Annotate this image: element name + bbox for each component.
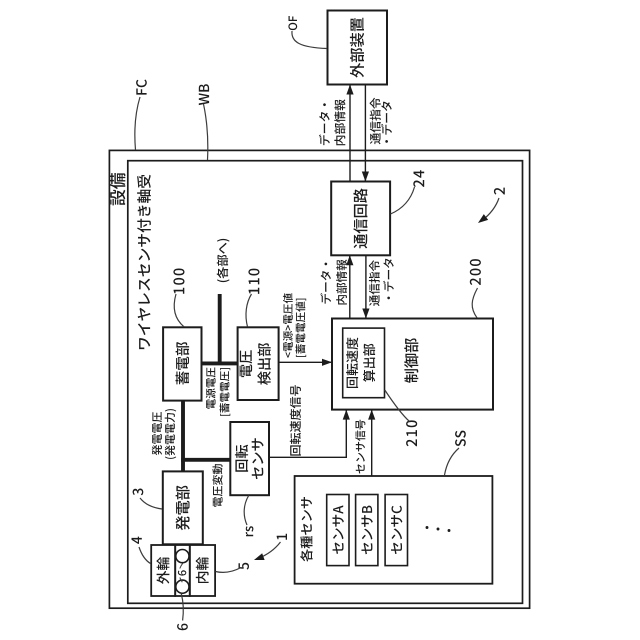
leader OF [292, 31, 327, 49]
leader 210 [385, 390, 410, 422]
ref 6 between balls [178, 570, 186, 575]
ball cage box (bearing balls) [175, 545, 190, 596]
control unit box 200 (制御部) [332, 319, 493, 410]
note データ・ upper line1 [319, 103, 330, 145]
note 電源電圧 line1 [206, 368, 216, 409]
leader arrow 2 [482, 198, 499, 221]
leader 100 [174, 294, 184, 327]
label センサC [391, 506, 402, 554]
note 通信指令 upper line1 [370, 98, 381, 145]
ref 4 (outer ring) [131, 537, 141, 544]
label 外輪 [157, 557, 170, 584]
sensor A box (センサA) [327, 495, 349, 566]
wireless-sensor bearing box WB rectangle [128, 161, 523, 604]
ref 2 (bearing device) [494, 188, 505, 195]
ref 100 [173, 269, 184, 294]
ref 6 bottom [177, 624, 188, 631]
arrow command down to communication circuit [364, 85, 366, 182]
ref WB [199, 84, 209, 105]
leader arrow 1 [258, 542, 281, 559]
label 検出部 line2 [258, 343, 271, 385]
power bus wire horizontal storage-to-detector [202, 361, 238, 365]
leader 6 to lower ball [180, 578, 183, 583]
note （発電電力） line2 [165, 409, 177, 459]
note 内部情報 upper line2 [334, 99, 345, 145]
note センサ信号 [355, 420, 365, 474]
note 回転速度信号 [290, 385, 301, 456]
leader SS [445, 448, 460, 475]
ellipsis dots for more sensors [426, 526, 429, 529]
title 設備 (equipment) [110, 173, 126, 205]
arrow rotation speed signal wire [269, 410, 346, 458]
leader FC [135, 97, 140, 150]
rotation sensor box rs (回転センサ) [230, 422, 269, 495]
label センサA [333, 505, 344, 554]
ref 210 [406, 420, 417, 446]
label 回転 line1 [235, 445, 248, 472]
leader WB [204, 104, 208, 160]
ref 1 (sensor unit) [277, 534, 287, 540]
arrow data up to external device [349, 85, 351, 182]
label 外部装置 [350, 18, 364, 78]
arrow sensor signal wire [371, 410, 373, 476]
leader 3 [140, 498, 162, 509]
label 蓄電部 [176, 342, 190, 385]
note 〔蓄電電圧値〕 line2 [295, 299, 306, 357]
note 発電電圧 line1 [152, 412, 162, 455]
ref rs (rotation sensor) [246, 526, 254, 536]
sensor C box (センサC) [385, 495, 407, 566]
label 通信回路 [353, 188, 367, 248]
note 内部情報 lower line2 [336, 260, 347, 305]
note 電圧変動 [212, 464, 222, 507]
leader 24 [391, 187, 415, 214]
leader 5 [216, 568, 242, 573]
power bus wire branch to rotation sensor [181, 458, 230, 462]
communication circuit box 24 (通信回路) [331, 182, 390, 256]
rotation speed calc box 210 (回転速度算出部) [343, 328, 385, 398]
note 通信指令 lower line1 [369, 260, 380, 306]
ref OF [288, 16, 297, 30]
label 発電部 [176, 486, 190, 531]
various sensors box SS (各種センサ) [295, 476, 493, 584]
title ワイヤレスセンサ付き軸受 [137, 175, 151, 350]
note ・データ upper line2 [381, 101, 392, 142]
leader 4 [139, 547, 151, 564]
note (各部へ) [217, 239, 230, 282]
leader 110 [246, 294, 252, 327]
note データ・ lower line1 [320, 263, 331, 304]
arrow data up to communication circuit [349, 255, 351, 318]
ref 3 (generator) [133, 489, 144, 496]
leader 6 to upper ball [180, 563, 183, 568]
ref 24 [413, 170, 424, 187]
label 回転速度 line1 [346, 337, 358, 388]
bearing ball lower circle [176, 580, 189, 593]
ref SS [455, 431, 466, 447]
generator box 3 (発電部) [163, 471, 203, 544]
note ・データ lower line2 [383, 259, 394, 300]
note 〈電源〉電圧値 line1 [283, 293, 293, 357]
ref FC [136, 80, 147, 95]
ref 5 (inner ring) [238, 563, 249, 570]
label 内輪 [196, 557, 209, 583]
label 電圧 line1 [240, 350, 253, 377]
label 各種センサ [300, 497, 312, 562]
inner ring box 5 (内輪) [190, 545, 215, 596]
ref 110 [248, 269, 259, 294]
leader 200 [472, 288, 477, 318]
storage battery box 100 (蓄電部) [163, 327, 201, 400]
voltage detection box 110 (電圧検出部) [238, 327, 279, 400]
leader rs [244, 496, 249, 526]
arrow command down to control unit [365, 255, 367, 318]
ref 200 [470, 259, 481, 285]
external device box OF (外部装置) [328, 11, 388, 85]
equipment box FC rectangle [109, 150, 529, 608]
sensor B box (センサB) [356, 495, 378, 566]
outer ring box 4 (外輪) [151, 545, 175, 596]
power bus wire vertical storage-to-generator [181, 401, 185, 472]
note 〔蓄電電圧〕 line2 [220, 368, 231, 416]
label 制御部 [404, 338, 418, 383]
power bus wire vertical to each part [218, 294, 222, 363]
arrow voltage value to control unit [279, 361, 332, 363]
label 算出部 line2 [363, 344, 375, 382]
label センサ line2 [252, 438, 264, 479]
leader 6 bottom [181, 594, 183, 621]
label センサB [361, 506, 372, 555]
bearing ball upper circle [176, 550, 189, 563]
